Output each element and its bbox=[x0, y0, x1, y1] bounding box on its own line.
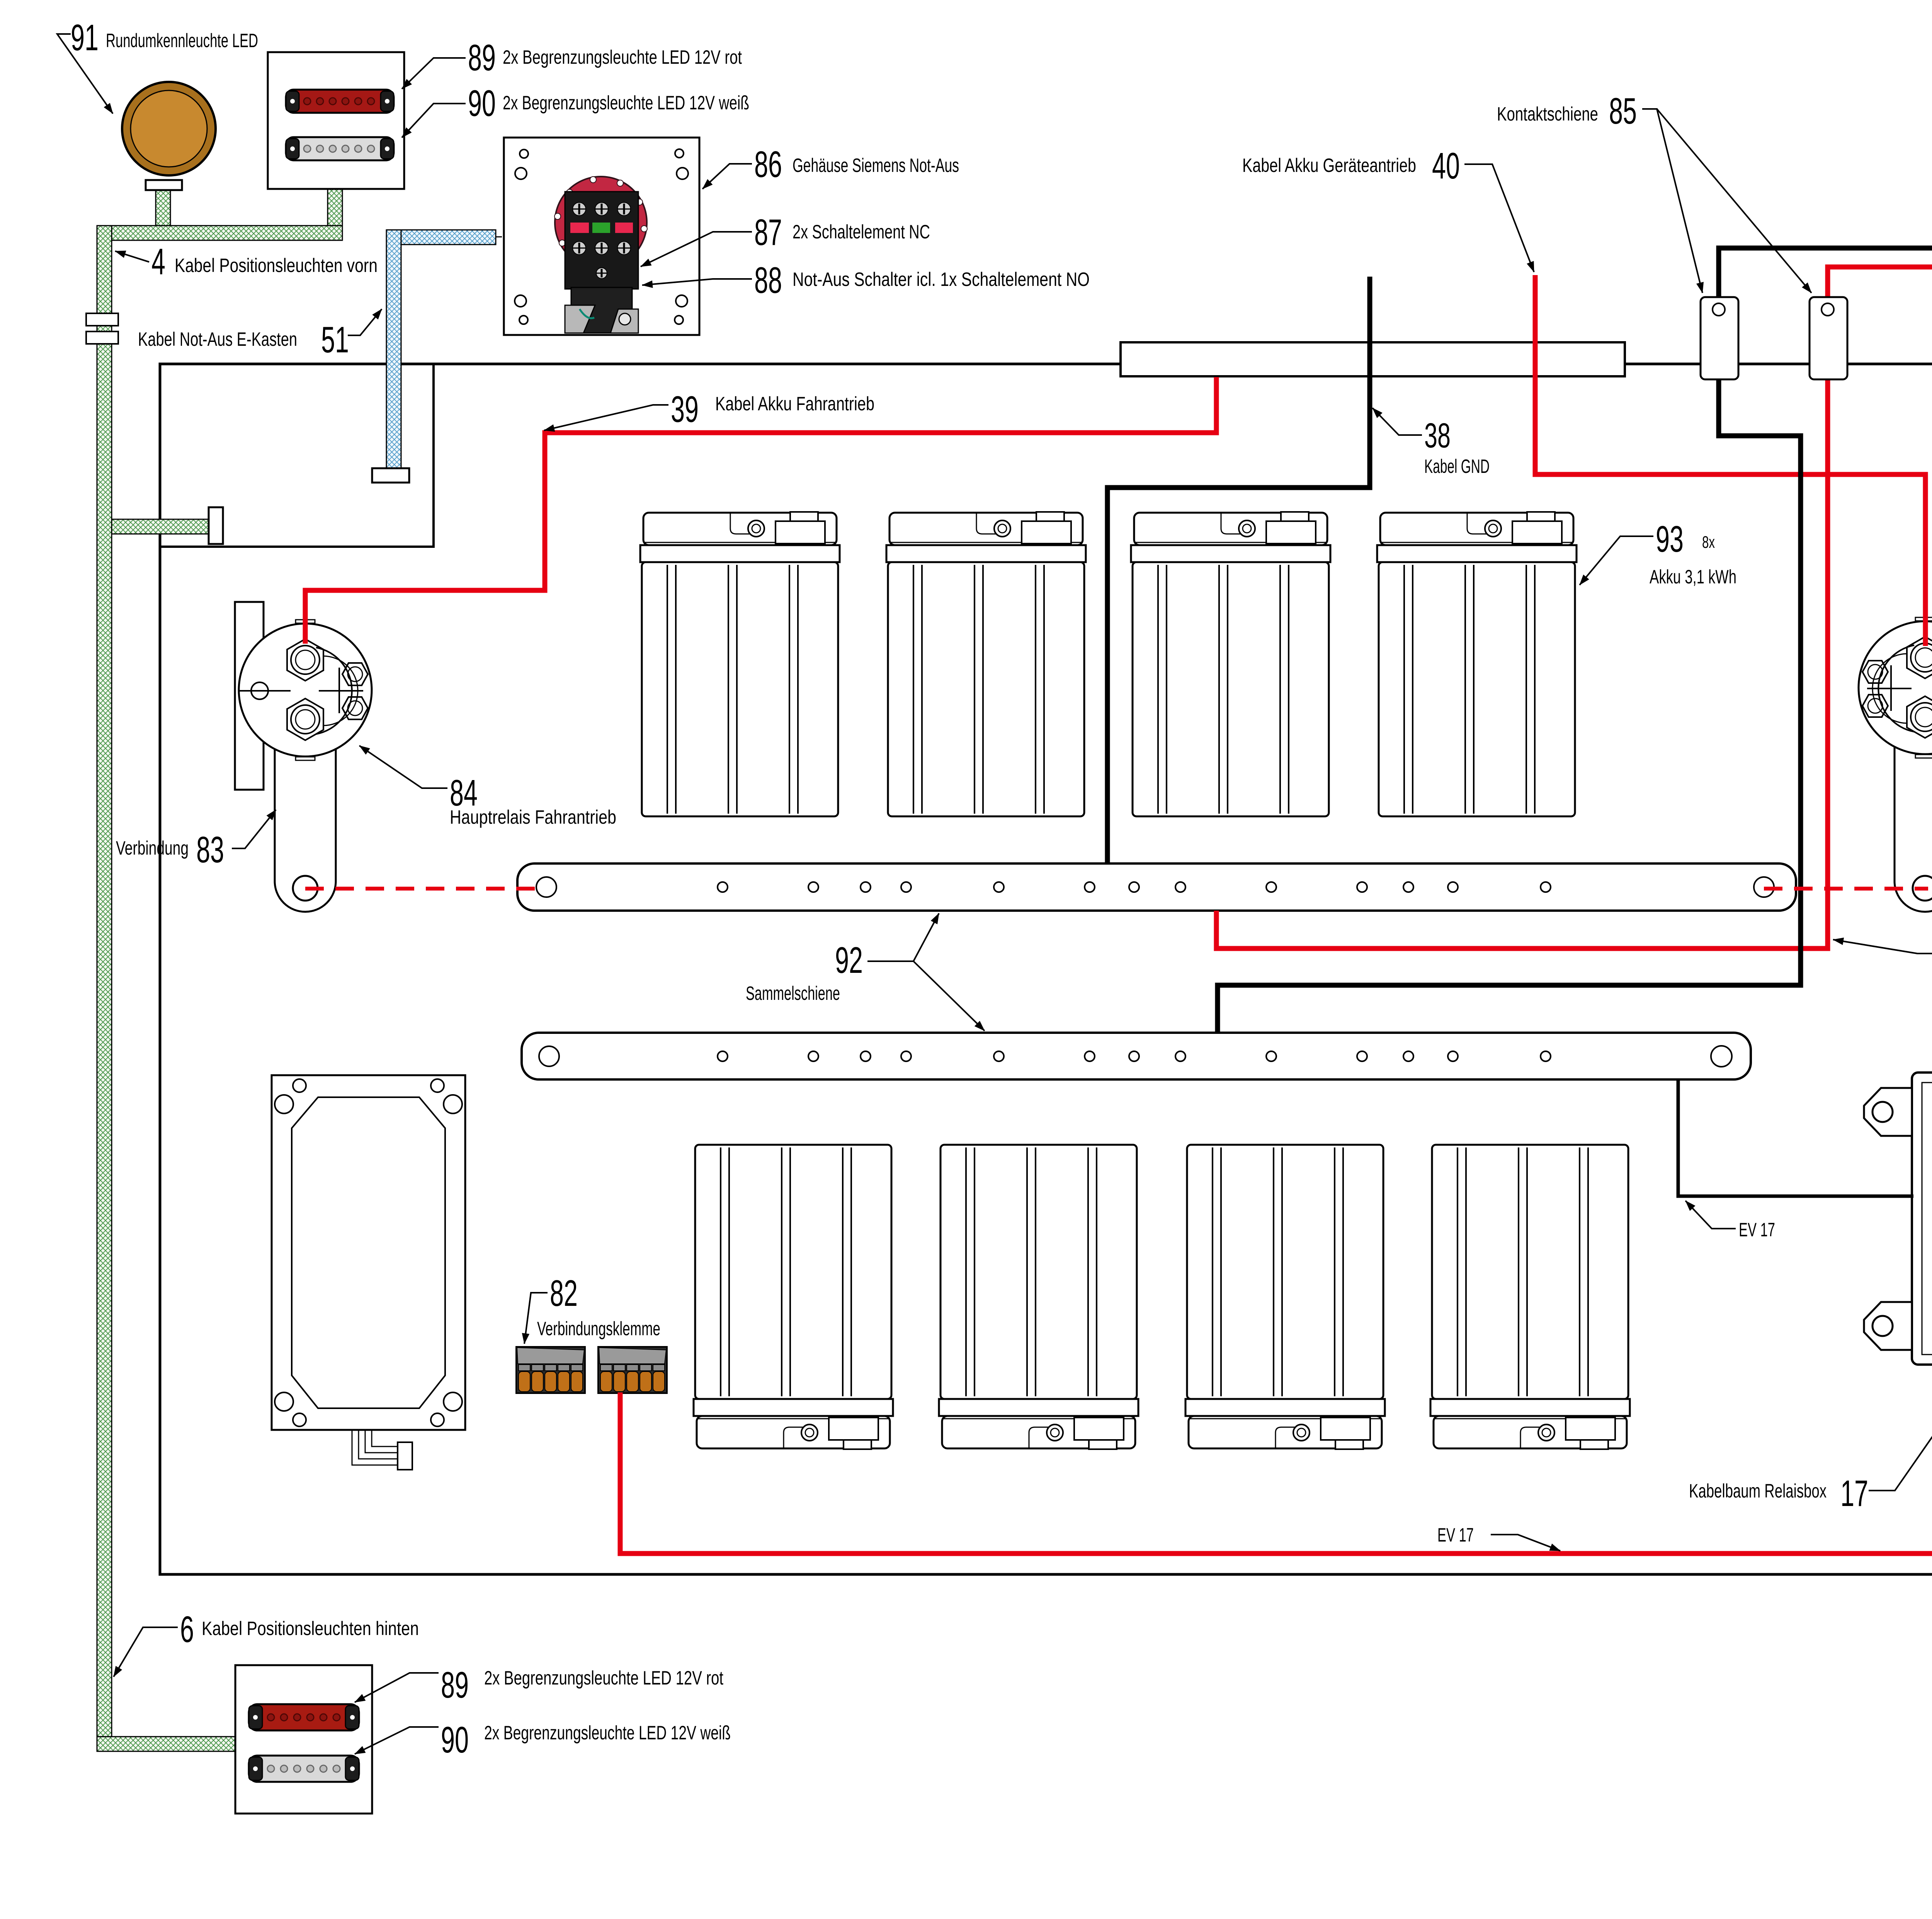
Kontaktschiene 85 bar bbox=[1121, 342, 1625, 376]
leader 85 to clamp 1 bbox=[1642, 109, 1702, 293]
svg-text:88: 88 bbox=[754, 260, 782, 301]
green cable branch into battery box bbox=[112, 519, 209, 534]
red dashed link left Verbindung to busbar bbox=[305, 887, 546, 891]
leader 36 to red wire bbox=[1833, 940, 1932, 954]
svg-text:87: 87 bbox=[754, 212, 782, 253]
front position-light box bbox=[268, 52, 404, 189]
Not-Aus Schalter 88 (red mushroom base) bbox=[555, 177, 647, 269]
svg-text:90: 90 bbox=[468, 83, 496, 124]
electronics module (bottom left) bbox=[272, 1075, 465, 1430]
wire 40 Kabel Akku Geraeteantrieb (red) bbox=[1535, 275, 1925, 646]
svg-text:6: 6 bbox=[180, 1609, 194, 1650]
leader EV17 top bbox=[1685, 1201, 1736, 1229]
Gehaeuse Siemens Not-Aus 86 (mounting plate) bbox=[504, 138, 699, 335]
svg-text:Hauptrelais Fahrantrieb: Hauptrelais Fahrantrieb bbox=[450, 806, 616, 828]
svg-text:89: 89 bbox=[441, 1664, 469, 1706]
svg-text:85: 85 bbox=[1609, 90, 1637, 132]
battery 93 Akku 3,1 kWh #7 bbox=[1185, 1145, 1385, 1449]
svg-text:89: 89 bbox=[468, 37, 496, 78]
svg-text:Not-Aus Schalter icl. 1x Schal: Not-Aus Schalter icl. 1x Schaltelement N… bbox=[793, 269, 1090, 290]
busbar 92 lower holes bbox=[539, 1046, 1732, 1067]
cable 6 Kabel Positionsleuchten hinten (green, left vertical run) bbox=[97, 226, 235, 1751]
leader 92 to upper busbar bbox=[867, 913, 939, 961]
svg-text:Kabel Akku Geräteantrieb: Kabel Akku Geräteantrieb bbox=[1242, 155, 1416, 176]
svg-text:Kabel Positionsleuchten hinten: Kabel Positionsleuchten hinten bbox=[202, 1618, 419, 1639]
Verbindung 83 bar (Hauptrelais Fahrantrieb) bbox=[275, 655, 336, 912]
Schaltelement block 87 (black contact block) bbox=[565, 192, 638, 333]
svg-text:Kabel GND: Kabel GND bbox=[1424, 456, 1490, 477]
leader 92 to lower busbar bbox=[913, 961, 985, 1031]
red dashed link busbar to right Verbindung bbox=[1764, 887, 1928, 891]
svg-text:Kontaktschiene: Kontaktschiene bbox=[1497, 103, 1598, 125]
svg-text:Sammelschiene: Sammelschiene bbox=[746, 982, 840, 1004]
svg-text:51: 51 bbox=[321, 319, 349, 360]
svg-text:93: 93 bbox=[1656, 518, 1684, 560]
leader 86 to housing bbox=[702, 164, 752, 189]
svg-text:40: 40 bbox=[1432, 145, 1460, 187]
svg-text:EV 17: EV 17 bbox=[1739, 1219, 1775, 1241]
battery 93 Akku 3,1 kWh #3 bbox=[1131, 512, 1330, 816]
svg-text:82: 82 bbox=[550, 1273, 578, 1314]
leader 90 front bbox=[402, 104, 466, 138]
wire EV 17 (red) from Relaisbox to Verbindungsklemme bbox=[620, 1224, 1932, 1554]
green cable end connector inside box bbox=[209, 507, 223, 544]
Verbindungsklemme 82 block #2 bbox=[598, 1347, 667, 1393]
leader 40 to red wire bbox=[1464, 164, 1534, 272]
Begrenzungsleuchte LED bar 89 front red bbox=[286, 90, 394, 113]
inline connector blocks on green cable bbox=[86, 313, 118, 326]
rear position-light box bbox=[235, 1665, 372, 1814]
dash-dot stub to Not-Aus box bbox=[496, 236, 507, 238]
svg-text:92: 92 bbox=[835, 940, 863, 981]
Kontaktschiene clamp 85 (black wire) bbox=[1701, 297, 1738, 379]
busbar 92 upper (Sammelschiene) bbox=[517, 863, 1796, 911]
svg-text:Verbindungsklemme: Verbindungsklemme bbox=[537, 1318, 660, 1339]
svg-text:Verbindung: Verbindung bbox=[116, 837, 189, 859]
svg-text:86: 86 bbox=[754, 144, 782, 185]
leader 51 to blue cable bbox=[348, 309, 382, 335]
leader 90 rear bbox=[355, 1727, 439, 1754]
svg-text:17: 17 bbox=[1840, 1473, 1868, 1514]
leader 89 front bbox=[402, 58, 466, 89]
Kabelbaum Relaisbox 17 bbox=[1864, 1073, 1932, 1365]
svg-text:39: 39 bbox=[671, 389, 699, 430]
inner top-left compartment box bbox=[160, 364, 434, 547]
leader EV17 bottom bbox=[1491, 1535, 1560, 1551]
contact block screws bbox=[573, 202, 631, 279]
black wire clamp to lower busbar bbox=[1218, 379, 1801, 1033]
svg-text:Gehäuse Siemens Not-Aus: Gehäuse Siemens Not-Aus bbox=[793, 155, 959, 176]
Begrenzungsleuchte LED bar 90 front white bbox=[286, 137, 394, 160]
leader 38 to black wire bbox=[1372, 408, 1422, 435]
leader 4 to green cable bbox=[115, 251, 149, 262]
leader 89 rear bbox=[355, 1673, 439, 1702]
leader 91 to beacon bbox=[57, 34, 113, 114]
svg-text:2x Begrenzungsleuchte LED 12V: 2x Begrenzungsleuchte LED 12V weiß bbox=[503, 92, 749, 114]
Kontaktschiene clamp 85 (red wire) bbox=[1810, 297, 1847, 379]
leader 93 to battery bbox=[1580, 536, 1653, 585]
svg-text:Kabelbaum Relaisbox: Kabelbaum Relaisbox bbox=[1689, 1480, 1827, 1502]
wire 36 Kabel Sammelschiene Ladegeraet (red) bbox=[1216, 379, 1828, 948]
svg-text:Kabel Not-Aus E-Kasten: Kabel Not-Aus E-Kasten bbox=[138, 328, 297, 350]
main relay 84 Hauptrelais Fahrantrieb bbox=[239, 620, 372, 760]
battery 93 Akku 3,1 kWh #5 bbox=[694, 1145, 893, 1449]
svg-text:EV 17: EV 17 bbox=[1437, 1524, 1474, 1546]
battery 93 Akku 3,1 kWh #4 bbox=[1377, 512, 1577, 816]
cable 51 end connector bbox=[372, 468, 409, 483]
svg-text:2x Begrenzungsleuchte LED 12V: 2x Begrenzungsleuchte LED 12V rot bbox=[484, 1667, 723, 1689]
leader 87 to contact block bbox=[641, 232, 752, 267]
Rundumkennleuchte LED 91 (orange beacon) bbox=[122, 82, 216, 190]
black charge wire from connector to clamp bbox=[1719, 202, 1932, 306]
busbar 92 lower (Sammelschiene) bbox=[522, 1033, 1751, 1079]
leader 6 to green cable bbox=[114, 1627, 178, 1677]
svg-text:8x: 8x bbox=[1702, 533, 1715, 552]
indicator windows (red/green/red) bbox=[570, 223, 589, 233]
svg-text:83: 83 bbox=[196, 829, 224, 870]
Verbindung 83 bar (Hauptrelais Mulcher) bbox=[1895, 653, 1932, 912]
svg-text:2x Schaltelement NC: 2x Schaltelement NC bbox=[793, 221, 930, 243]
battery 93 Akku 3,1 kWh #6 bbox=[939, 1145, 1138, 1449]
wire 39 Kabel Akku Fahrantrieb (red) bbox=[305, 377, 1216, 644]
svg-text:90: 90 bbox=[441, 1719, 469, 1761]
battery 93 Akku 3,1 kWh #8 bbox=[1430, 1145, 1630, 1449]
svg-text:4: 4 bbox=[151, 241, 165, 282]
svg-text:38: 38 bbox=[1424, 416, 1451, 455]
main battery box outline bbox=[160, 364, 1932, 1574]
svg-text:Rundumkennleuchte LED: Rundumkennleuchte LED bbox=[106, 30, 258, 51]
leader 84 left to relay bbox=[359, 746, 447, 788]
busbar 92 upper holes bbox=[536, 877, 1774, 897]
leader 39 to red wire bbox=[544, 405, 668, 430]
leader 85 to clamp 2 bbox=[1657, 109, 1811, 293]
battery 93 Akku 3,1 kWh #1 bbox=[640, 512, 840, 816]
svg-text:Kabel Positionsleuchten vorn: Kabel Positionsleuchten vorn bbox=[175, 255, 378, 276]
cable 4 Kabel Positionsleuchten vorn (green, beacon stub) bbox=[97, 189, 342, 240]
cable 51 Kabel Not-Aus E-Kasten (blue) bbox=[386, 230, 496, 469]
battery 93 Akku 3,1 kWh #2 bbox=[886, 512, 1086, 816]
module pigtail connector bbox=[398, 1442, 412, 1470]
Verbindungsklemme 82 block #1 bbox=[516, 1347, 585, 1393]
svg-text:2x Begrenzungsleuchte LED 12V: 2x Begrenzungsleuchte LED 12V rot bbox=[503, 46, 742, 68]
leader 83 left to bar bbox=[232, 810, 276, 848]
bracket plate behind relay Hauptrelais Fahrantrieb bbox=[235, 602, 264, 790]
wire 38 Kabel GND (black) bbox=[1107, 277, 1370, 863]
leader 82 to klemme bbox=[524, 1293, 548, 1344]
svg-text:2x Begrenzungsleuchte LED 12V: 2x Begrenzungsleuchte LED 12V weiß bbox=[484, 1722, 731, 1744]
red charge wire from connector to Kontaktschiene clamp bbox=[1828, 202, 1932, 306]
Begrenzungsleuchte LED bar 90 rear white bbox=[249, 1756, 359, 1782]
main relay 84 Hauptrelais Mulcher bbox=[1859, 617, 1932, 758]
leader 88 to switch bbox=[642, 279, 752, 285]
svg-text:Kabel Akku Fahrantrieb: Kabel Akku Fahrantrieb bbox=[715, 393, 874, 415]
module pigtail wires bbox=[352, 1430, 398, 1465]
Begrenzungsleuchte LED bar 89 rear red bbox=[249, 1704, 359, 1730]
svg-text:Akku 3,1 kWh: Akku 3,1 kWh bbox=[1650, 566, 1736, 588]
leader 17 to Relaisbox bbox=[1869, 1384, 1932, 1491]
wire EV 17 (black) busbar to Relaisbox bbox=[1678, 1079, 1913, 1196]
svg-text:91: 91 bbox=[71, 17, 99, 58]
